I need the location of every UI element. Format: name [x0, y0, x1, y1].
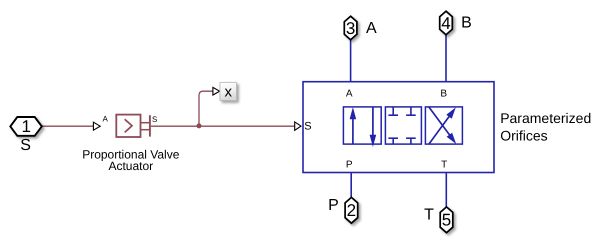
valve cell 3 cross arrow up — [429, 107, 456, 144]
valve cell 1 box — [343, 107, 381, 144]
wire port1 to actuator — [42, 125, 93, 127]
valve cell 2 blocked port symbols top — [388, 107, 415, 115]
svg-text:x: x — [224, 84, 232, 101]
valve cell 2 blocked port symbols bottom — [388, 138, 415, 144]
port 4 hexagon — [440, 11, 453, 35]
port 1 hexagon — [10, 117, 42, 136]
svg-text:A: A — [366, 20, 377, 37]
wire port 4 to valve B — [445, 35, 447, 82]
wire actuator to junction to valve S — [151, 125, 295, 127]
svg-text:S: S — [20, 137, 31, 154]
actuator block U1 — [116, 115, 140, 137]
wire port 3 to valve A — [350, 40, 352, 82]
wire branch to goto x — [199, 91, 213, 126]
actuator input arrow — [93, 122, 100, 130]
port 3 hexagon — [344, 16, 357, 40]
svg-text:Actuator: Actuator — [108, 159, 153, 173]
actuator name label — [82, 148, 179, 173]
goto block x — [220, 82, 237, 100]
wire valve T to port 5 — [445, 173, 447, 207]
valve pin label T — [441, 160, 447, 171]
pin label S — [152, 115, 157, 124]
valve pin label B — [440, 88, 447, 99]
label B of port 4 — [461, 14, 472, 31]
port 2 hexagon — [345, 197, 358, 223]
pin label A — [103, 115, 109, 124]
valve pin label S — [304, 120, 311, 132]
svg-text:T: T — [424, 206, 434, 223]
svg-text:1: 1 — [21, 117, 30, 136]
wire valve P to port 2 — [350, 173, 352, 198]
label S of port 1 — [20, 137, 31, 154]
valve cell 2 box — [385, 107, 421, 144]
valve pin label P — [346, 160, 353, 171]
svg-text:S: S — [152, 115, 157, 124]
svg-text:A: A — [346, 88, 353, 99]
valve block U2 outline — [303, 82, 494, 173]
node junction — [197, 123, 202, 128]
valve cell 1 up arrow — [350, 107, 357, 144]
svg-text:B: B — [440, 88, 447, 99]
svg-text:Parameterized: Parameterized — [500, 110, 591, 126]
svg-text:5: 5 — [442, 210, 451, 229]
svg-text:A: A — [103, 115, 109, 124]
valve name label — [500, 110, 591, 143]
label A of port 3 — [366, 20, 377, 37]
valve cell 3 box — [425, 107, 462, 144]
svg-text:T: T — [441, 160, 447, 171]
svg-text:B: B — [461, 14, 472, 31]
actuator output port symbol — [141, 115, 150, 136]
valve S input arrow — [295, 122, 301, 130]
valve cell 1 down arrow — [370, 107, 377, 147]
svg-text:Orifices: Orifices — [500, 127, 547, 143]
svg-text:P: P — [328, 197, 339, 214]
valve cell 3 cross arrow down — [429, 107, 456, 144]
svg-text:4: 4 — [441, 14, 450, 33]
goto x arrow — [213, 87, 220, 95]
svg-text:P: P — [346, 160, 353, 171]
svg-text:3: 3 — [346, 19, 355, 38]
label P of port 2 — [328, 197, 339, 214]
valve pin label A — [346, 88, 353, 99]
svg-text:S: S — [304, 120, 311, 132]
svg-text:2: 2 — [347, 201, 356, 220]
label T of port 5 — [424, 206, 434, 223]
port 5 hexagon — [440, 207, 453, 233]
